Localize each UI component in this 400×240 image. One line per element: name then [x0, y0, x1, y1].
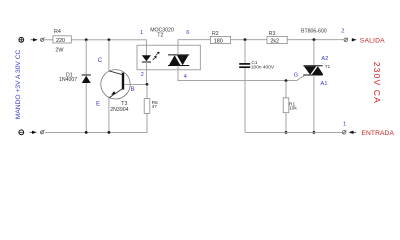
wire (opto pin 1 drop) [145, 39, 147, 55]
terminal - (negative supply) [19, 130, 24, 135]
svg-text:B: B [131, 87, 135, 93]
node (junction to T3 collector) [108, 38, 111, 41]
open terminal circle (top left) [40, 37, 44, 41]
wire [44, 39, 53, 41]
wire opto pin 6 up to R2 [178, 40, 210, 55]
wire [71, 39, 146, 41]
capacitor C1 [239, 40, 275, 133]
open terminal circle (bottom left) [40, 130, 44, 134]
svg-text:2N3904: 2N3904 [110, 107, 128, 113]
svg-text:SALIDA: SALIDA [360, 38, 385, 45]
svg-text:1: 1 [343, 122, 346, 128]
svg-text:2: 2 [141, 72, 144, 78]
svg-text:T1: T1 [325, 64, 331, 69]
resistor R4 [53, 29, 71, 53]
terminal SALIDA [344, 38, 385, 45]
wire opto pin 4 down and gate rail [178, 66, 297, 81]
node R1 gate junction [285, 79, 288, 82]
transistor T3 2N3904 [96, 40, 147, 133]
svg-text:C: C [98, 58, 103, 64]
terminal ENTRADA [342, 130, 394, 137]
wire down to R5 [146, 84, 148, 98]
LED light arrows [153, 52, 160, 60]
svg-text:MANDO +3V A 30V CC: MANDO +3V A 30V CC [15, 49, 22, 119]
node C1 junction [244, 38, 247, 41]
svg-text:180: 180 [214, 38, 223, 44]
svg-text:10k: 10k [289, 106, 297, 112]
svg-text:BT806-600: BT806-600 [301, 28, 327, 34]
svg-text:R4: R4 [54, 29, 61, 35]
diode D1 [59, 40, 91, 133]
node base/pin2/R5 junction [146, 83, 149, 86]
arrow at - terminal [30, 131, 37, 134]
label MOC3020 / T2 [150, 28, 174, 39]
svg-text:100n 400V: 100n 400V [251, 65, 275, 71]
resistor R1 [283, 81, 297, 133]
svg-text:47: 47 [152, 104, 158, 110]
LED inside opto [142, 55, 151, 70]
svg-text:4: 4 [184, 74, 188, 80]
wire gate diagonal to triac [297, 76, 305, 81]
svg-text:220: 220 [56, 38, 65, 44]
svg-text:1N4007: 1N4007 [59, 77, 77, 83]
node (junction to D1) [85, 38, 88, 41]
triac T1 [303, 40, 330, 133]
wire [287, 39, 344, 41]
svg-text:230V CA: 230V CA [372, 62, 382, 104]
wire [231, 39, 267, 41]
resistor R3 [267, 31, 287, 44]
resistor R5 [144, 99, 158, 114]
svg-text:A2: A2 [321, 56, 328, 62]
svg-text:1: 1 [140, 30, 143, 36]
wire R5 to bottom rail corner [45, 113, 147, 132]
svg-text:E: E [96, 102, 100, 108]
optocoupler T2 MOC3020 body [137, 45, 200, 70]
opto pin2 wire down to base node [145, 70, 147, 85]
svg-text:2: 2 [341, 28, 344, 34]
terminal + (positive supply) [19, 37, 24, 42]
arrow at + terminal [31, 38, 38, 41]
resistor R2 [210, 31, 230, 44]
phototriac inside opto [168, 55, 189, 66]
svg-text:R2: R2 [212, 31, 219, 37]
svg-text:2W: 2W [55, 48, 64, 54]
node A1 bottom junction [313, 131, 316, 134]
svg-text:6: 6 [186, 30, 189, 36]
svg-text:G: G [294, 73, 299, 79]
svg-text:A1: A1 [320, 81, 327, 87]
svg-text:2k2: 2k2 [270, 38, 279, 44]
node emitter bottom junction [108, 131, 111, 134]
wire bottom right rail [245, 131, 343, 133]
node R1 bottom junction [285, 131, 288, 134]
node D1 bottom junction [85, 131, 88, 134]
svg-text:ENTRADA: ENTRADA [361, 130, 394, 137]
node triac A2 junction [313, 38, 316, 41]
svg-text:R3: R3 [269, 31, 276, 37]
svg-text:T2: T2 [157, 32, 163, 38]
